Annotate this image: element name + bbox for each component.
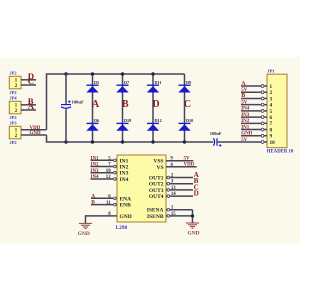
- ground symbol right: [186, 223, 200, 237]
- wire U1 pin 3 OUT2: [149, 180, 193, 188]
- svg-text:7: 7: [270, 121, 273, 127]
- svg-text:10: 10: [106, 169, 111, 174]
- svg-text:B: B: [122, 99, 129, 110]
- svg-text:VS: VS: [156, 165, 163, 171]
- svg-text:100uF: 100uF: [72, 99, 84, 104]
- svg-text:4: 4: [270, 103, 273, 109]
- wire U1 pin 1 ISENA: [147, 206, 193, 214]
- svg-text:D12: D12: [155, 118, 162, 123]
- wire JP1 pin 1: [241, 84, 273, 90]
- svg-text:JP1: JP1: [267, 69, 275, 74]
- wire net B to U1 pin 11: [91, 201, 131, 209]
- svg-text:D9: D9: [186, 80, 191, 85]
- diode D6: [86, 118, 99, 131]
- wire column B vertical: [122, 74, 124, 142]
- svg-text:A: A: [241, 81, 246, 87]
- svg-text:IN2: IN2: [91, 163, 100, 168]
- svg-text:IN1: IN1: [241, 125, 250, 130]
- svg-text:OUT2: OUT2: [149, 182, 164, 188]
- svg-text:D: D: [194, 190, 199, 198]
- wire U1 pin 4 VS: [156, 163, 196, 171]
- wire net IN2 to U1 pin 7: [91, 163, 129, 171]
- wire net A to U1 pin 6: [91, 195, 131, 203]
- svg-text:11: 11: [106, 201, 111, 206]
- junction top rail / C1: [64, 72, 67, 75]
- junction ISENB: [191, 214, 194, 217]
- svg-text:GND: GND: [120, 214, 132, 220]
- svg-text:GND: GND: [241, 132, 253, 137]
- svg-text:IN4: IN4: [120, 177, 129, 183]
- wire net IN3 to U1 pin 10: [91, 169, 129, 177]
- svg-text:JP2: JP2: [10, 115, 17, 120]
- svg-text:100uF: 100uF: [210, 131, 222, 136]
- svg-text:ISENA: ISENA: [147, 208, 164, 214]
- wire U1 pin 15 ISENB: [147, 212, 193, 220]
- svg-text:IN4: IN4: [91, 175, 100, 180]
- svg-text:12: 12: [106, 175, 111, 180]
- svg-text:IN3: IN3: [120, 171, 129, 177]
- svg-text:D: D: [152, 99, 159, 110]
- svg-text:A: A: [92, 99, 100, 110]
- svg-text:D7: D7: [124, 80, 129, 85]
- schematic sheet background: [0, 56, 300, 246]
- svg-text:C: C: [184, 99, 191, 110]
- capacitor C2 100uF: [210, 131, 222, 147]
- ground symbol left: [78, 223, 92, 237]
- svg-text:VSS: VSS: [153, 159, 163, 165]
- diode D7: [116, 80, 129, 93]
- wire column D vertical: [152, 74, 154, 142]
- junction bottom rail / C1: [64, 140, 67, 143]
- svg-text:5V: 5V: [184, 156, 191, 161]
- wire ISENA to ISENB vertical: [192, 210, 194, 223]
- svg-text:1: 1: [270, 84, 273, 90]
- svg-text:3: 3: [270, 96, 273, 102]
- svg-text:2: 2: [270, 90, 273, 96]
- wire VDD left vertical: [46, 73, 48, 130]
- svg-text:D10: D10: [186, 118, 193, 123]
- svg-text:13: 13: [171, 186, 176, 191]
- svg-text:14: 14: [171, 192, 176, 197]
- svg-text:IN3: IN3: [91, 169, 100, 174]
- wire JP1 pin 4: [241, 103, 273, 109]
- wire JP4 pin2: [21, 109, 36, 111]
- svg-text:IN1: IN1: [120, 158, 129, 164]
- wire JP1 pin 5: [241, 109, 273, 115]
- wire VDD top rail: [47, 73, 185, 75]
- svg-text:5V: 5V: [241, 138, 248, 143]
- diode D9: [178, 80, 191, 93]
- svg-text:GND: GND: [30, 131, 42, 136]
- wire JP3 pin1: [21, 129, 47, 131]
- junction bottom rail / column B: [121, 140, 124, 143]
- svg-text:9: 9: [270, 134, 273, 140]
- svg-text:A: A: [28, 101, 35, 111]
- svg-text:OUT1: OUT1: [149, 176, 164, 182]
- svg-text:B: B: [241, 93, 245, 99]
- wire cap C2 to header pin 10: [218, 141, 262, 143]
- svg-text:5V: 5V: [241, 100, 248, 105]
- wire U1 pin 14 OUT4: [149, 192, 193, 200]
- wire GND left vertical: [46, 135, 48, 143]
- diode D12: [147, 118, 162, 131]
- IC U1 L298: [116, 155, 167, 231]
- svg-text:OUT3: OUT3: [149, 188, 164, 194]
- wire JP1 pin 6: [241, 115, 273, 121]
- svg-text:OUT4: OUT4: [149, 194, 164, 200]
- svg-text:IN2: IN2: [241, 119, 250, 124]
- wire column A vertical: [92, 74, 94, 142]
- svg-text:5: 5: [270, 109, 273, 115]
- svg-text:C: C: [28, 76, 34, 86]
- svg-text:ISENB: ISENB: [147, 214, 164, 220]
- svg-text:IN1: IN1: [91, 156, 100, 161]
- wire JP1 pin 7: [241, 121, 273, 127]
- svg-text:ENA: ENA: [120, 196, 132, 202]
- wire net IN4 to U1 pin 12: [91, 175, 129, 183]
- junction top rail / column A: [91, 72, 94, 75]
- wire JP1 pin 9: [241, 134, 273, 140]
- wire JP1 pin 10: [261, 140, 275, 146]
- wire U1 pin 9 VSS: [153, 157, 193, 165]
- junction bottom rail / column A: [91, 140, 94, 143]
- svg-text:8: 8: [270, 127, 273, 133]
- diode D18: [116, 118, 131, 131]
- svg-text:D5: D5: [94, 80, 99, 85]
- svg-text:JP2: JP2: [10, 90, 17, 95]
- connector JP3: [9, 121, 21, 145]
- svg-text:10: 10: [270, 140, 276, 146]
- wire JP2 pin2: [21, 84, 36, 86]
- wire JP1 pin 3: [241, 96, 273, 102]
- wire column C vertical: [184, 74, 186, 142]
- junction bottom rail / column C: [183, 140, 186, 143]
- svg-text:IN2: IN2: [120, 165, 129, 171]
- junction top rail / column D: [151, 72, 154, 75]
- svg-text:HEADER 10: HEADER 10: [267, 150, 294, 155]
- diode D11: [147, 80, 162, 93]
- svg-text:JP2: JP2: [10, 71, 17, 76]
- svg-text:L298: L298: [116, 225, 128, 231]
- svg-text:15: 15: [171, 212, 176, 217]
- wire net IN1 to U1 pin 5: [91, 157, 129, 165]
- wire GND bottom rail: [47, 141, 214, 143]
- svg-text:D18: D18: [124, 118, 131, 123]
- wire JP4 pin1: [21, 104, 36, 106]
- svg-text:D6: D6: [94, 118, 99, 123]
- connector JP2: [9, 71, 21, 95]
- svg-text:6: 6: [270, 115, 273, 121]
- wire JP2 pin1: [21, 79, 36, 81]
- svg-text:IN4: IN4: [241, 107, 250, 112]
- wire U1 pin 13 OUT3: [149, 186, 193, 194]
- svg-text:ENB: ENB: [120, 203, 132, 209]
- wire U1 pin 2 OUT1: [149, 174, 193, 182]
- svg-text:JP4: JP4: [10, 96, 18, 101]
- svg-text:A: A: [91, 193, 95, 199]
- svg-text:D11: D11: [155, 80, 162, 85]
- wire JP1 pin 2: [241, 90, 273, 96]
- svg-text:JP3: JP3: [10, 121, 18, 126]
- svg-text:GND: GND: [78, 231, 90, 237]
- wire U1 pin 8 GND: [86, 212, 132, 223]
- diode D5: [86, 80, 99, 93]
- svg-text:VDD: VDD: [184, 163, 195, 168]
- junction bottom rail / column D: [151, 140, 154, 143]
- wire JP1 pin 8: [241, 127, 273, 133]
- svg-text:B: B: [91, 200, 95, 206]
- svg-text:IN3: IN3: [241, 113, 250, 118]
- wire JP3 pin2: [21, 134, 47, 136]
- connector JP4: [9, 96, 21, 120]
- connector JP1 HEADER 10: [267, 69, 294, 155]
- svg-text:JP2: JP2: [10, 140, 17, 145]
- svg-text:GND: GND: [188, 231, 200, 237]
- diode D10: [178, 118, 193, 131]
- capacitor C1 100uF: [61, 73, 84, 142]
- junction top rail / column B: [121, 72, 124, 75]
